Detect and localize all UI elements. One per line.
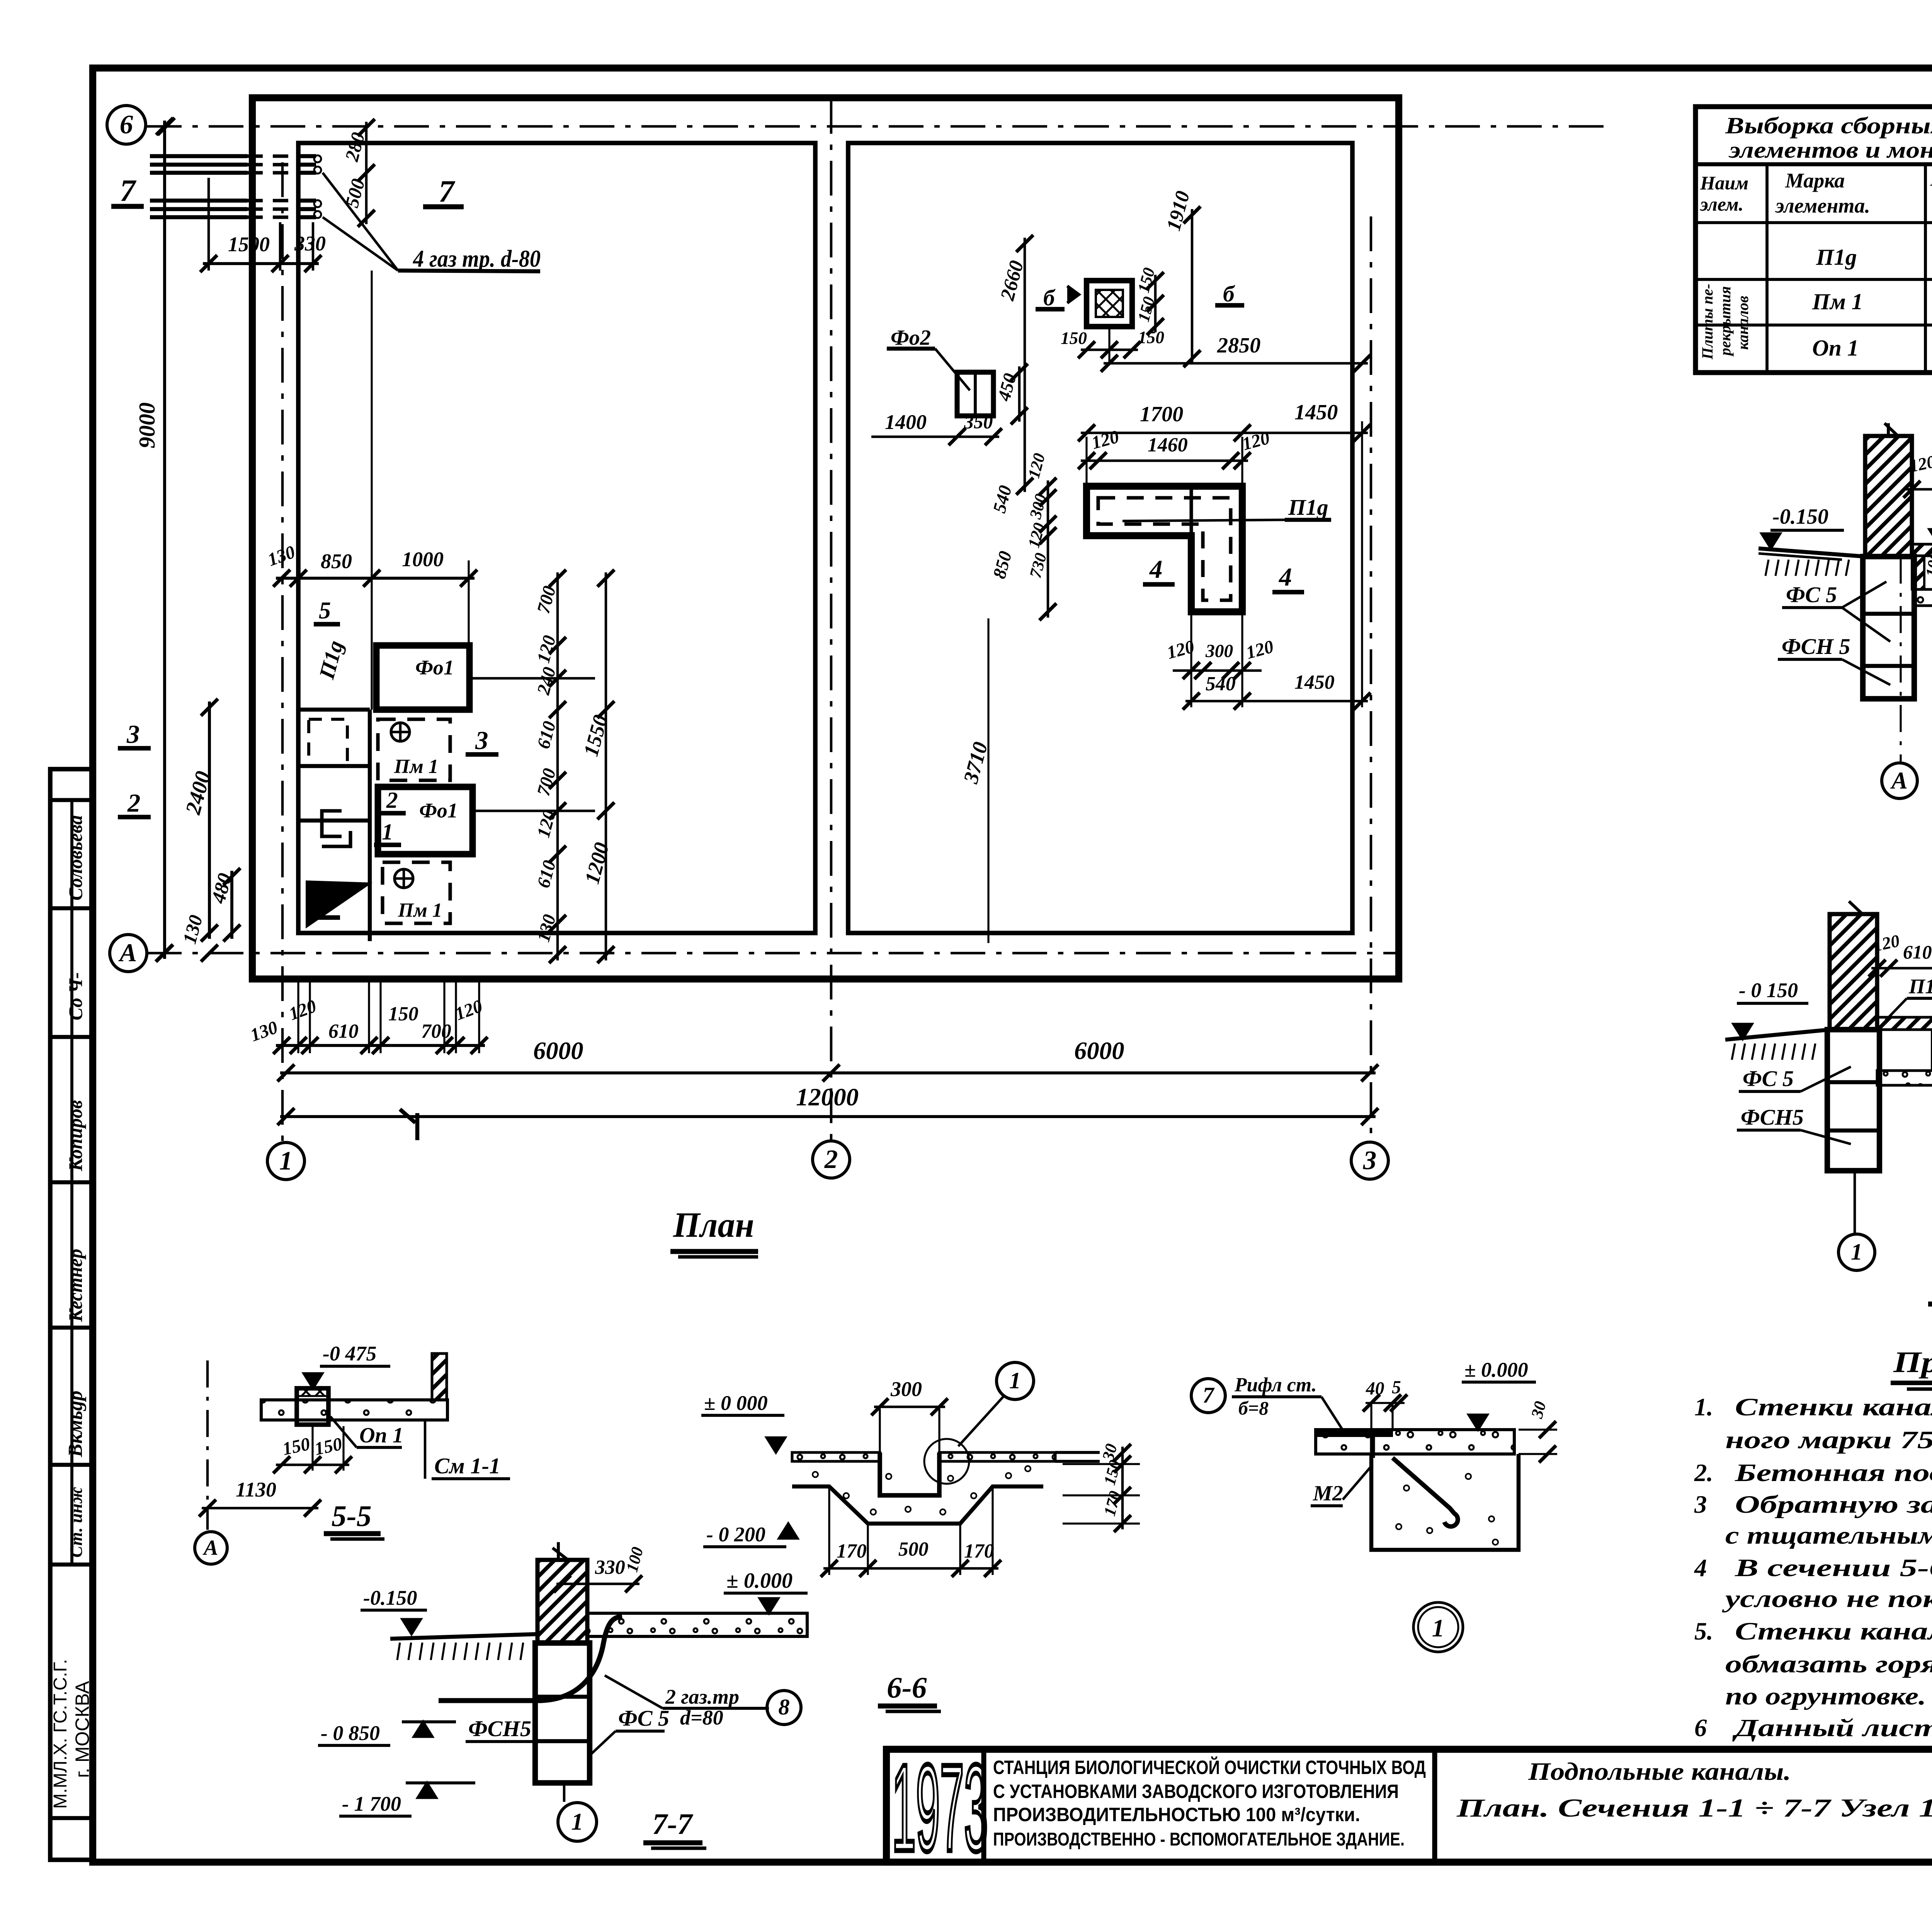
svg-text:350: 350 <box>964 411 993 432</box>
section wall brick hatched <box>1865 436 1912 557</box>
svg-text:610: 610 <box>1903 942 1932 963</box>
plan: outer wall outline <box>252 98 1399 979</box>
svg-text:каналов: каналов <box>1734 296 1752 350</box>
svg-text:1: 1 <box>279 1146 293 1175</box>
5-5 dim 1130 <box>202 1507 318 1510</box>
svg-text:М2: М2 <box>1313 1481 1343 1505</box>
bottom dimension 6000+6000 <box>280 1071 1376 1074</box>
svg-text:Стенки каналов , соприкасающие: Стенки каналов , соприкасающиеся с грунт… <box>1735 1617 1932 1645</box>
vertical dim 280/500 at pipes <box>365 122 368 224</box>
svg-text:-0.150: -0.150 <box>1772 505 1828 529</box>
6-6 concrete dots <box>813 1472 818 1477</box>
svg-text:с тщательным послойным уплотне: с тщательным послойным уплотнением <box>1725 1522 1932 1549</box>
svg-text:- 0 850: - 0 850 <box>321 1721 380 1745</box>
plan: right room inner wall outline <box>848 143 1352 933</box>
ref circle А below section 1-1 <box>1900 557 1901 761</box>
title block outer <box>886 1749 1932 1862</box>
svg-text:Оп 1: Оп 1 <box>359 1423 403 1447</box>
dims above L-channel 1700/1450 <box>1081 432 1368 434</box>
bottom dimension 12000 <box>280 1115 1376 1118</box>
top chain 130 850 1000 <box>276 577 474 580</box>
svg-text:Бетонная подготовка из бетона: Бетонная подготовка из бетона марки 50 <box>1735 1459 1932 1487</box>
svg-text:6-6: 6-6 <box>887 1671 927 1704</box>
axis circle 3 <box>1351 1142 1388 1179</box>
svg-text:СТАНЦИЯ БИОЛОГИЧЕСКОЙ ОЧИСТКИ: СТАНЦИЯ БИОЛОГИЧЕСКОЙ ОЧИСТКИ СТОЧНЫХ ВО… <box>993 1756 1426 1778</box>
svg-text:Плиты пе-: Плиты пе- <box>1699 284 1716 360</box>
axis 1 dash-dot line <box>281 162 284 1142</box>
svg-text:См 1-1: См 1-1 <box>434 1453 500 1478</box>
svg-text:± 0.000: ± 0.000 <box>726 1569 793 1593</box>
plate Пм1 upper (dashed) <box>378 719 450 780</box>
svg-text:обмазать горячим битумом за: обмазать горячим битумом за 2 раза <box>1725 1650 1932 1678</box>
node 1 concrete block <box>1371 1454 1519 1550</box>
dim 2660 vertical <box>1024 238 1026 492</box>
svg-text:ПРОИЗВОДСТВЕННО - ВСПОМОГАТЕЛЬ: ПРОИЗВОДСТВЕННО - ВСПОМОГАТЕЛЬНОЕ ЗДАНИЕ… <box>993 1829 1405 1850</box>
svg-text:Примечания: Примечания <box>1893 1345 1932 1379</box>
svg-text:С УСТАНОВКАМИ ЗАВОДСКОГО ИЗГОТ: С УСТАНОВКАМИ ЗАВОДСКОГО ИЗГОТОВЛЕНИЯ <box>993 1781 1399 1802</box>
svg-text:9000: 9000 <box>134 402 160 448</box>
black wedge in channel <box>307 882 368 926</box>
svg-text:1400: 1400 <box>885 410 927 434</box>
svg-text:ФС 5: ФС 5 <box>618 1706 669 1731</box>
svg-text:1000: 1000 <box>402 548 444 571</box>
svg-text:по огрунтовке.: по огрунтовке. <box>1725 1682 1926 1710</box>
svg-text:170: 170 <box>837 1540 867 1562</box>
svg-text:610: 610 <box>328 1020 359 1042</box>
svg-text:4 газ тр. d-80: 4 газ тр. d-80 <box>413 245 541 272</box>
svg-text:12000: 12000 <box>796 1083 859 1111</box>
axis Б dash-dot line <box>147 125 1604 128</box>
svg-text:б=8: б=8 <box>1238 1398 1269 1419</box>
svg-text:Пм 1: Пм 1 <box>398 899 442 921</box>
6-6 dim 300 <box>874 1406 945 1408</box>
left chain of L-channel <box>1047 480 1049 618</box>
svg-text:5: 5 <box>319 597 331 624</box>
gas pipe bundle 1 <box>150 154 247 158</box>
5-5 wall piece top right <box>432 1354 447 1400</box>
svg-text:6: 6 <box>120 109 133 139</box>
L-shaped channel outline <box>1087 486 1242 612</box>
svg-text:План. Сечения 1-1 ÷ 7-7 Узе: План. Сечения 1-1 ÷ 7-7 Узел 1. Выборка <box>1456 1794 1932 1822</box>
svg-text:2: 2 <box>824 1144 838 1174</box>
svg-text:330: 330 <box>294 232 326 255</box>
svg-text:Пм 1: Пм 1 <box>1812 289 1863 314</box>
svg-text:М.МЛ.Х. ГС.Т.С.Г.: М.МЛ.Х. ГС.Т.С.Г. <box>50 1659 71 1809</box>
svg-text:1: 1 <box>571 1808 583 1835</box>
5-5 dims 150 150 <box>276 1464 349 1466</box>
fundament box Фо1 upper <box>376 645 469 710</box>
L-channel inner dashed <box>1098 498 1231 600</box>
svg-text:ФСН5: ФСН5 <box>1741 1105 1804 1130</box>
svg-text:3: 3 <box>1694 1491 1707 1519</box>
title block 1973 <box>892 1738 988 1877</box>
gas pipe bundle 2 <box>150 199 247 203</box>
svg-text:Вкмьgр: Вкмьgр <box>65 1391 87 1457</box>
axis circle Б(6) <box>107 106 146 144</box>
svg-text:4: 4 <box>1149 555 1162 584</box>
axis 3 dash-dot line <box>1370 216 1372 1142</box>
small dashed duct left <box>309 719 347 766</box>
svg-text:П1g: П1g <box>1816 244 1857 270</box>
svg-text:- 1 700: - 1 700 <box>342 1792 401 1815</box>
6-6 right dim chain 30 150 170 <box>1063 1463 1140 1465</box>
svg-text:Обратную засыпку пазух грунтом: Обратную засыпку пазух грунтом производи… <box>1735 1491 1932 1519</box>
svg-text:8: 8 <box>778 1694 789 1720</box>
svg-text:3: 3 <box>1363 1145 1377 1175</box>
dims 1400/350/450 at Фо2 <box>871 436 999 438</box>
svg-text:элем.: элем. <box>1699 194 1743 215</box>
svg-text:2: 2 <box>127 789 140 817</box>
svg-text:1450: 1450 <box>1294 671 1335 693</box>
svg-text:ФСН5: ФСН5 <box>468 1716 531 1741</box>
svg-text:7-7: 7-7 <box>652 1807 694 1840</box>
svg-text:1130: 1130 <box>236 1478 276 1501</box>
dim 1910 vertical <box>1191 209 1194 364</box>
dims 150/150 right of square <box>1154 275 1157 332</box>
svg-text:2.: 2. <box>1694 1459 1713 1487</box>
svg-text:7: 7 <box>439 174 456 209</box>
svg-text:Рифл ст.: Рифл ст. <box>1234 1374 1317 1396</box>
svg-text:условно не показаны.: условно не показаны. <box>1722 1585 1932 1613</box>
svg-text:г. МОСКВА: г. МОСКВА <box>71 1681 93 1778</box>
svg-text:2 газ.тр: 2 газ.тр <box>665 1685 739 1708</box>
svg-text:330: 330 <box>595 1556 625 1578</box>
dim 120 610 120 <box>1906 488 1932 491</box>
svg-text:5.: 5. <box>1694 1617 1713 1645</box>
svg-text:40: 40 <box>1366 1379 1384 1399</box>
svg-text:1: 1 <box>1009 1368 1021 1394</box>
svg-text:Пм 1: Пм 1 <box>394 756 439 778</box>
right chain of cluster (120/610/...) <box>556 572 559 960</box>
svg-text:ФС 5: ФС 5 <box>1786 582 1837 607</box>
5-5 block Оп1 <box>297 1388 328 1425</box>
svg-text:1500: 1500 <box>228 233 270 256</box>
svg-text:элемента.: элемента. <box>1775 194 1870 217</box>
7-7 ref circle 8 <box>767 1691 801 1725</box>
svg-text:540: 540 <box>1206 673 1236 695</box>
svg-text:ПРОИЗВОДИТЕЛЬНОСТЬЮ 100 м³/су: ПРОИЗВОДИТЕЛЬНОСТЬЮ 100 м³/сутки. <box>993 1804 1360 1825</box>
svg-text:П1g: П1g <box>1288 495 1328 520</box>
svg-text:ФС 5: ФС 5 <box>1743 1066 1794 1091</box>
svg-text:500: 500 <box>898 1538 929 1560</box>
svg-text:Стенки каналов из кирпича глин: Стенки каналов из кирпича глиняного обык… <box>1735 1393 1932 1421</box>
svg-text:Подпольные каналы.: Подпольные каналы. <box>1528 1758 1791 1786</box>
plan: left room inner wall outline <box>298 143 815 933</box>
svg-text:4: 4 <box>1694 1554 1707 1582</box>
svg-text:150: 150 <box>388 1003 418 1025</box>
hatched pit square <box>1087 281 1132 327</box>
svg-text:А: А <box>202 1536 218 1560</box>
svg-text:А: А <box>118 938 137 967</box>
svg-text:170: 170 <box>964 1540 994 1562</box>
svg-text:А: А <box>1890 767 1908 794</box>
node 1 title circle <box>1413 1602 1463 1652</box>
svg-text:ного марки 75 на цементном рас: ного марки 75 на цементном растворе марк… <box>1725 1426 1932 1454</box>
3-3 ground line <box>1725 1030 1830 1040</box>
second chain (1550/1200) <box>605 572 607 960</box>
svg-text:-0.150: -0.150 <box>363 1586 417 1609</box>
svg-text:300: 300 <box>1205 641 1233 661</box>
7-7 foundation blocks <box>535 1643 590 1783</box>
6-6 ref circle 1 with detail circle <box>997 1362 1034 1400</box>
3-3 foundation blocks <box>1827 1030 1879 1171</box>
dim 2850 <box>1104 362 1368 365</box>
section cut mark 1 at bottom left <box>400 1109 415 1123</box>
svg-text:6000: 6000 <box>533 1037 583 1065</box>
svg-text:Со Ч-: Со Ч- <box>65 972 86 1020</box>
7-7 floor slab right <box>587 1613 807 1636</box>
svg-text:Копиров: Копиров <box>65 1100 86 1171</box>
table: selection of precast elements <box>1696 107 1932 373</box>
svg-text:5: 5 <box>319 890 331 918</box>
7-7 ground line left + hatch <box>390 1634 537 1639</box>
left stamp column boxes <box>50 769 93 1860</box>
svg-text:7: 7 <box>1202 1382 1215 1408</box>
7-7 ref circle 1 <box>563 1784 566 1802</box>
svg-text:ФСН 5: ФСН 5 <box>1782 634 1850 659</box>
svg-text:1: 1 <box>1851 1239 1862 1265</box>
svg-text:- 0 150: - 0 150 <box>1739 979 1798 1002</box>
svg-text:-0 475: -0 475 <box>323 1342 376 1365</box>
plate Пм1 lower (dashed) <box>383 862 450 923</box>
floor slab <box>1912 544 1932 556</box>
3-3 bottom slab <box>1877 1071 1932 1085</box>
small bracket shapes <box>322 811 342 836</box>
7-7 gas pipe curve <box>439 1616 622 1701</box>
svg-text:700: 700 <box>421 1020 451 1042</box>
svg-text:7: 7 <box>120 173 137 208</box>
dimension 1500 / 330 under pipes <box>203 262 319 265</box>
svg-text:1700: 1700 <box>1140 402 1183 426</box>
bottom chains of L-channel <box>1173 669 1262 672</box>
svg-text:рекрытия: рекрытия <box>1716 286 1734 357</box>
svg-text:Оп 1: Оп 1 <box>1812 335 1859 361</box>
svg-text:3: 3 <box>126 720 139 749</box>
left vertical dimension 2400 <box>208 701 211 939</box>
svg-text:6000: 6000 <box>1074 1037 1124 1065</box>
svg-text:Марка: Марка <box>1785 169 1845 192</box>
svg-text:1: 1 <box>1432 1614 1444 1642</box>
3-3 ref circle 1 <box>1854 1172 1856 1234</box>
channel bottom slab <box>1913 589 1932 606</box>
svg-text:1: 1 <box>382 819 393 844</box>
svg-text:Данный лист смотри совместно с: Данный лист смотри совместно с листом КС… <box>1732 1714 1932 1742</box>
svg-text:Ст. инж: Ст. инж <box>66 1487 86 1558</box>
channel walls <box>1912 556 1924 589</box>
svg-text:Фо1: Фо1 <box>415 656 454 679</box>
svg-text:2: 2 <box>386 787 398 813</box>
svg-text:б: б <box>1223 281 1235 306</box>
svg-text:План: План <box>673 1205 754 1245</box>
svg-text:3: 3 <box>475 726 488 755</box>
svg-text:Фо1: Фо1 <box>419 799 458 822</box>
svg-text:В сечении 5-6 плиты покрытия: В сечении 5-6 плиты покрытия канала <box>1735 1554 1932 1582</box>
ground line + hatch <box>1759 548 1865 557</box>
leader Фо1 upper <box>469 677 595 680</box>
svg-text:± 0 000: ± 0 000 <box>704 1391 768 1415</box>
foundation blocks <box>1863 557 1914 699</box>
svg-text:Кестнер: Кестнер <box>65 1249 86 1322</box>
svg-text:4: 4 <box>1278 563 1292 591</box>
svg-text:5-5: 5-5 <box>332 1499 372 1532</box>
svg-text:Соловьева: Соловьева <box>65 815 86 901</box>
channel cluster partition lines <box>368 710 372 941</box>
6-6 trench <box>880 1452 939 1495</box>
svg-text:П1g: П1g <box>1908 975 1932 998</box>
left vertical dimension 480 <box>230 871 233 939</box>
node 1 anchor with hook <box>1393 1458 1458 1526</box>
axis А dash-dot line <box>147 952 1399 955</box>
3-3 floor slab <box>1877 1017 1932 1030</box>
left vertical dimension 9000 <box>163 121 166 959</box>
svg-text:Фо2: Фо2 <box>891 326 931 350</box>
svg-text:2850: 2850 <box>1217 334 1260 358</box>
svg-text:1460: 1460 <box>1148 434 1188 456</box>
axis circle 1 <box>267 1142 304 1180</box>
svg-text:Наим: Наим <box>1700 172 1748 194</box>
box Фо2 <box>957 372 993 416</box>
svg-text:б: б <box>1043 285 1056 310</box>
svg-text:Кол-во: Кол-во <box>1930 169 1932 190</box>
svg-text:- 0 200: - 0 200 <box>706 1523 765 1546</box>
dims 150/150 below square <box>1081 349 1138 351</box>
axis circle А <box>110 935 147 972</box>
svg-text:Выборка сборных железобетонных: Выборка сборных железобетонных <box>1725 113 1932 139</box>
dims 120 1460 120 <box>1081 460 1248 462</box>
svg-text:1450: 1450 <box>1294 400 1338 424</box>
svg-text:элементов и монолитных участко: элементов и монолитных участков <box>1728 137 1932 163</box>
bottom chain 130 120 610 150 700 120 <box>276 1044 485 1047</box>
fundament box Фо1 lower <box>378 787 473 854</box>
svg-text:850: 850 <box>321 550 352 573</box>
svg-text:300: 300 <box>890 1377 922 1401</box>
axis 2 dash-dot line <box>830 99 833 1141</box>
svg-text:1.: 1. <box>1694 1393 1713 1421</box>
svg-text:150: 150 <box>1061 329 1087 348</box>
svg-text:6: 6 <box>1694 1714 1707 1742</box>
node 1 callout circle 7 <box>1191 1379 1225 1413</box>
3-3 dim chain 120 610 150 700 120 <box>1871 967 1932 970</box>
leader to gas pipe label <box>323 173 398 271</box>
axis circle 2 <box>813 1141 850 1178</box>
node 1 steel plate <box>1316 1430 1393 1437</box>
6-6 bottom dims 170 500 170 <box>823 1567 998 1570</box>
leader Фо1 lower <box>473 810 595 812</box>
6-6 concrete body underside <box>792 1486 1043 1524</box>
5-5 ref circle А <box>195 1532 227 1564</box>
svg-text:± 0.000: ± 0.000 <box>1464 1358 1528 1381</box>
svg-text:1973: 1973 <box>892 1738 988 1877</box>
